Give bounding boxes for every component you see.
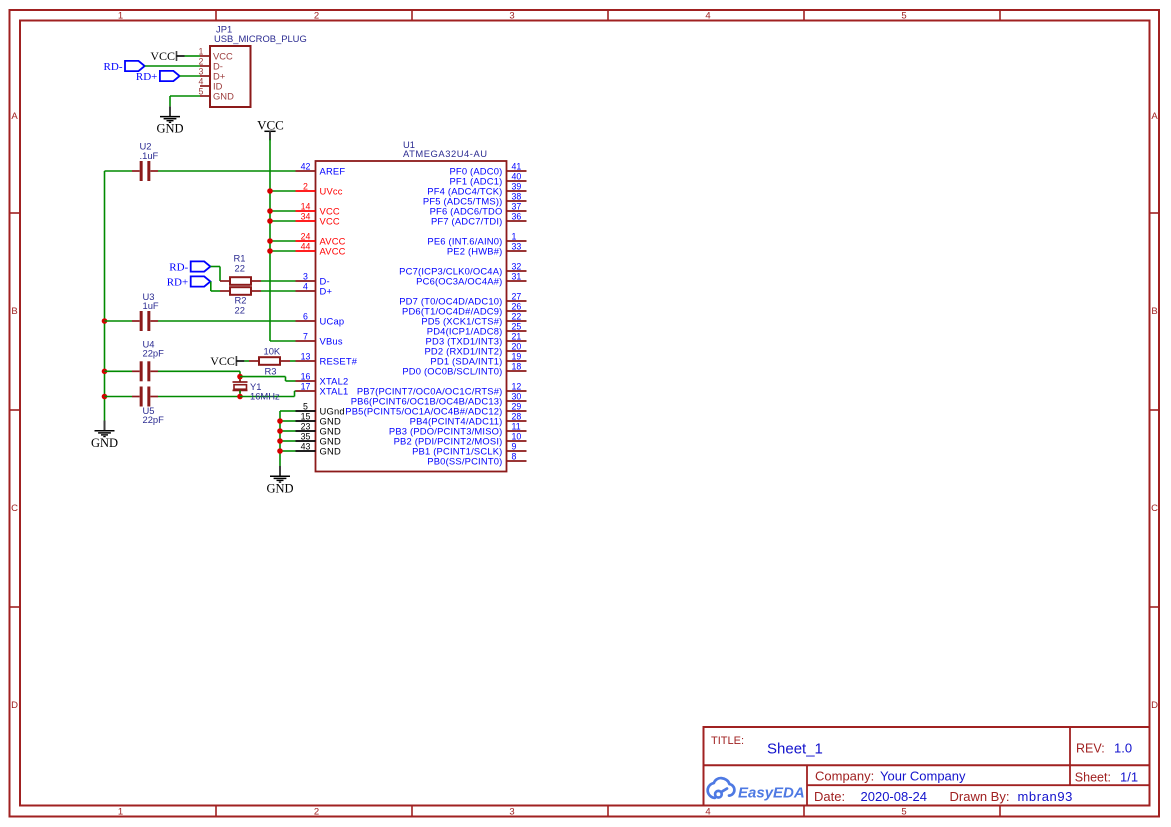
svg-text:22pF: 22pF	[143, 414, 165, 425]
svg-text:TITLE:: TITLE:	[711, 735, 744, 747]
svg-text:D: D	[11, 700, 18, 711]
svg-text:GND: GND	[213, 90, 234, 101]
title block vertical divider REV	[1069, 727, 1071, 785]
title block vertical divider logo	[806, 765, 808, 805]
U1 pin 42 (AREF) stub	[296, 170, 316, 172]
wire RD+ port to JP1 pin 3	[180, 75, 200, 77]
IC U1 body	[316, 161, 507, 472]
U1 pin 29 (PB5(PCINT5/OC1A/OC4B#/ADC12)) stub	[507, 410, 527, 412]
wire RD- corner down to R1	[219, 267, 221, 282]
svg-text:1uF: 1uF	[143, 300, 159, 311]
svg-text:5: 5	[199, 86, 204, 96]
frame column tick x=412	[411, 10, 413, 21]
svg-text:R3: R3	[265, 365, 277, 376]
svg-text:33: 33	[512, 241, 522, 251]
svg-text:RESET#: RESET#	[320, 355, 358, 366]
wire XTAL1 branch to U1 pin 17	[295, 390, 296, 392]
svg-text:9: 9	[512, 441, 517, 451]
crystal Y1 (16MHz)	[233, 380, 248, 394]
svg-text:D+: D+	[320, 285, 333, 296]
U1 pin 25 (PD4(ICP1/ADC8)) stub	[507, 330, 527, 332]
U1 pin 37 (PF6 (ADC6/TDO) stub	[507, 210, 527, 212]
wire XTAL1 net: capacitor U5 to crystal column	[158, 396, 240, 398]
svg-text:11: 11	[512, 421, 521, 431]
ground symbol GND at left rail	[91, 421, 118, 450]
title block outer box	[704, 727, 1150, 806]
wire XTAL2 branch vertical jog	[285, 377, 287, 381]
svg-text:PD0 (OC0B/SCL/INT0): PD0 (OC0B/SCL/INT0)	[402, 365, 502, 376]
svg-text:44: 44	[301, 241, 311, 251]
svg-text:Sheet:: Sheet:	[1075, 770, 1111, 784]
svg-text:Your Company: Your Company	[880, 768, 966, 783]
svg-text:B: B	[1151, 306, 1157, 317]
junction GND rail y=431	[277, 428, 283, 434]
svg-text:mbran93: mbran93	[1018, 789, 1074, 804]
svg-text:6: 6	[303, 311, 308, 321]
svg-text:C: C	[11, 503, 18, 514]
U1 pin 18 (PD0 (OC0B/SCL/INT0)) stub	[507, 370, 527, 372]
ground symbol GND below JP1	[156, 106, 183, 135]
svg-text:RD-: RD-	[104, 61, 123, 73]
svg-text:24: 24	[301, 231, 311, 241]
svg-text:PC6(OC3A/OC4A#): PC6(OC3A/OC4A#)	[416, 275, 502, 286]
U1 pin 28 (PB4(PCINT4/ADC11)) stub	[507, 420, 527, 422]
frame row tick y=410	[10, 409, 21, 411]
U1 pin 40 (PF1 (ADC1)) stub	[507, 180, 527, 182]
wire AREF net: capacitor U2 to U1 pin 42	[158, 170, 296, 172]
U1 pin 24 (AVCC) stub	[296, 240, 316, 242]
svg-text:2: 2	[303, 181, 308, 191]
U1 pin 41 (PF0 (ADC0)) stub	[507, 170, 527, 172]
wire VCC flag to JP1 pin 1	[185, 55, 201, 57]
junction on VCC rail y=251	[267, 248, 273, 254]
svg-text:3: 3	[509, 11, 514, 22]
svg-text:20: 20	[512, 341, 522, 351]
svg-text:VBus: VBus	[320, 335, 343, 346]
svg-text:3: 3	[303, 271, 308, 281]
svg-text:17: 17	[301, 381, 311, 391]
svg-text:Sheet_1: Sheet_1	[767, 741, 823, 758]
svg-text:19: 19	[512, 351, 522, 361]
frame column tick x=1000	[999, 10, 1001, 21]
JP1 pin 5 (GND) stub	[200, 95, 210, 97]
wire UGnd pin 5 to GND rail corner	[280, 410, 296, 412]
svg-text:25: 25	[512, 321, 522, 331]
capacitor U4 (22pF)	[132, 361, 158, 381]
wire XTAL2 branch horizontal	[240, 376, 286, 378]
svg-text:1/1: 1/1	[1120, 769, 1138, 784]
title block horizontal divider 1	[704, 764, 1150, 766]
U1 pin 1 (PE6 (INT.6/AIN0)) stub	[507, 240, 527, 242]
JP1 pin 2 (D-) stub	[200, 65, 210, 67]
U1 pin 44 (AVCC) stub	[296, 250, 316, 252]
svg-text:38: 38	[512, 191, 522, 201]
wire resistor R3 to U1 pin 13 (RESET#)	[290, 360, 296, 362]
wire JP1 ground (vertical)	[169, 96, 171, 106]
wire resistor R1 to U1 pin 3 (D-)	[261, 280, 296, 282]
U1 pin 4 (D+) stub	[296, 290, 316, 292]
svg-text:1: 1	[118, 807, 123, 818]
svg-text:GND: GND	[156, 122, 183, 136]
svg-text:18: 18	[512, 361, 522, 371]
svg-text:10: 10	[512, 431, 522, 441]
svg-text:PB0(SS/PCINT0): PB0(SS/PCINT0)	[427, 455, 502, 466]
svg-text:VCC: VCC	[257, 118, 284, 133]
svg-text:RD-: RD-	[169, 262, 188, 274]
U1 pin 6 (UCap) stub	[296, 320, 316, 322]
svg-text:PF7 (ADC7/TDI): PF7 (ADC7/TDI)	[431, 215, 503, 226]
svg-text:AREF: AREF	[320, 165, 346, 176]
wire GND rail branch y=451	[280, 450, 296, 452]
wire GND rail branch y=421	[280, 420, 296, 422]
svg-text:21: 21	[512, 331, 522, 341]
wire VCC rail branch y=211	[270, 210, 296, 212]
wire VCC rail vertical bus	[269, 139, 271, 341]
U1 pin 8 (PB0(SS/PCINT0)) stub	[507, 460, 527, 462]
U1 pin 13 (RESET#) stub	[296, 360, 316, 362]
svg-text:XTAL1: XTAL1	[320, 385, 349, 396]
wire RD+ corner to R2	[211, 290, 220, 292]
svg-text:29: 29	[512, 401, 522, 411]
U1 pin 5 (UGnd) stub	[296, 410, 316, 412]
capacitor U5 (22pF)	[132, 387, 158, 407]
svg-text:4: 4	[303, 281, 308, 291]
title block horizontal divider 2	[807, 784, 1150, 786]
wire resistor R2 to U1 pin 4 (D+)	[261, 290, 296, 292]
U1 pin 2 (UVcc) stub	[296, 190, 316, 192]
svg-text:Date:: Date:	[814, 789, 845, 804]
svg-text:2: 2	[199, 56, 204, 66]
resistor R3 (10K)	[249, 357, 290, 365]
svg-text:43: 43	[301, 441, 311, 451]
JP1 pin 4 (ID) stub	[200, 85, 210, 87]
JP1 pin 1 (VCC) stub	[200, 55, 210, 57]
junction GND rail at XTAL1 net	[102, 394, 108, 400]
U1 pin 22 (PD5 (XCK1/CTS#)) stub	[507, 320, 527, 322]
U1 pin 32 (PC7(ICP3/CLK0/OC4A)) stub	[507, 270, 527, 272]
svg-text:41: 41	[512, 161, 522, 171]
frame row tick y=607	[10, 606, 21, 608]
wire UCap net: GND rail to capacitor U3	[105, 320, 133, 322]
svg-text:VCC: VCC	[210, 354, 235, 368]
svg-text:30: 30	[512, 391, 522, 401]
wire VCC rail branch y=191	[270, 190, 296, 192]
capacitor U3 (1uF)	[132, 311, 158, 331]
svg-text:GND: GND	[91, 436, 118, 450]
svg-text:A: A	[1151, 111, 1158, 122]
junction GND rail y=451	[277, 448, 283, 454]
U1 pin 38 (PF5 (ADC5/TMS))) stub	[507, 200, 527, 202]
svg-text:16: 16	[301, 371, 311, 381]
svg-text:ATMEGA32U4-AU: ATMEGA32U4-AU	[403, 148, 488, 159]
wire VCC rail branch y=221	[270, 220, 296, 222]
wire UCap net: capacitor U3 to U1 pin 6	[158, 320, 296, 322]
U1 pin 11 (PB3 (PDO/PCINT3/MISO)) stub	[507, 430, 527, 432]
svg-text:13: 13	[301, 351, 311, 361]
wire XTAL1 net: GND rail to capacitor U5	[105, 396, 133, 398]
svg-text:22pF: 22pF	[143, 348, 165, 359]
svg-text:22: 22	[235, 305, 245, 316]
wire GND right rail vertical	[279, 411, 281, 466]
svg-text:2: 2	[314, 11, 319, 22]
ground symbol GND below U1	[266, 466, 293, 495]
junction GND rail y=421	[277, 418, 283, 424]
U1 pin 7 (VBus) stub	[296, 340, 316, 342]
svg-text:1: 1	[512, 231, 517, 241]
U1 pin 27 (PD7 (T0/OC4D/ADC10)) stub	[507, 300, 527, 302]
svg-text:1: 1	[199, 46, 204, 56]
wire RD- port to JP1 pin 2	[145, 65, 200, 67]
wire VCC rail branch y=241	[270, 240, 296, 242]
svg-text:3: 3	[199, 66, 204, 76]
U1 pin 16 (XTAL2) stub	[296, 380, 316, 382]
U1 pin 39 (PF4 (ADC4/TCK)) stub	[507, 190, 527, 192]
wire JP1 pin 5 to ground (horizontal)	[170, 95, 200, 97]
power flag VCC at JP1 pin 1	[150, 49, 184, 63]
U1 pin 33 (PE2 (HWB#)) stub	[507, 250, 527, 252]
U1 pin 31 (PC6(OC3A/OC4A#)) stub	[507, 280, 527, 282]
wire VCC rail to VBus pin 7	[270, 340, 296, 342]
svg-text:4: 4	[705, 11, 710, 22]
wire VCC flag to resistor R3	[244, 360, 249, 362]
svg-text:VCC: VCC	[150, 49, 175, 63]
svg-text:12: 12	[512, 381, 522, 391]
svg-text:37: 37	[512, 201, 522, 211]
svg-text:4: 4	[705, 807, 710, 818]
svg-text:7: 7	[303, 331, 308, 341]
frame row tick y=213	[10, 212, 21, 214]
power flag VCC at resistor R3	[210, 354, 244, 368]
wire VCC rail branch y=251	[270, 250, 296, 252]
junction on VCC rail y=241	[267, 238, 273, 244]
junction on VCC rail y=211	[267, 208, 273, 214]
svg-text:A: A	[11, 111, 18, 122]
svg-text:USB_MICROB_PLUG: USB_MICROB_PLUG	[214, 33, 307, 44]
svg-text:16MHz: 16MHz	[250, 390, 280, 401]
net port RD- at resistor R1	[169, 261, 210, 273]
svg-text:.1uF: .1uF	[140, 150, 159, 161]
resistor R1 (22)	[220, 277, 261, 285]
frame column tick x=608	[607, 10, 609, 21]
wire GND rail branch y=431	[280, 430, 296, 432]
wire crystal column top (XTAL2 side)	[239, 371, 241, 382]
svg-text:1: 1	[118, 11, 123, 22]
junction XTAL1 branch	[237, 394, 243, 400]
svg-text:5: 5	[303, 401, 308, 411]
svg-text:RD+: RD+	[167, 277, 188, 289]
svg-text:RD+: RD+	[136, 71, 157, 83]
svg-text:D: D	[1151, 700, 1158, 711]
svg-text:UCap: UCap	[320, 315, 345, 326]
frame column tick x=216	[215, 10, 217, 21]
JP1 pin 3 (D+) stub	[200, 75, 210, 77]
junction XTAL2 branch	[237, 374, 243, 380]
svg-text:15: 15	[301, 411, 311, 421]
svg-text:B: B	[11, 306, 17, 317]
net port RD+ at JP1 pin 3	[136, 71, 180, 83]
U1 pin 36 (PF7 (ADC7/TDI)) stub	[507, 220, 527, 222]
U1 pin 10 (PB2 (PDI/PCINT2/MOSI)) stub	[507, 440, 527, 442]
svg-text:10K: 10K	[264, 346, 281, 357]
svg-text:1.0: 1.0	[1114, 741, 1132, 756]
svg-text:REV:: REV:	[1076, 742, 1105, 756]
U1 pin 15 (GND) stub	[296, 420, 316, 422]
svg-text:8: 8	[512, 451, 517, 461]
EasyEDA logo cloud icon	[708, 778, 735, 798]
svg-text:2: 2	[314, 807, 319, 818]
svg-text:32: 32	[512, 261, 522, 271]
svg-text:42: 42	[301, 161, 311, 171]
svg-text:2020-08-24: 2020-08-24	[861, 789, 928, 804]
U1 pin 3 (D-) stub	[296, 280, 316, 282]
wire RD- port to corner	[210, 266, 220, 268]
svg-text:3: 3	[509, 807, 514, 818]
power flag VCC above U1	[257, 118, 284, 141]
wire XTAL1 net: crystal column to jog	[240, 396, 295, 398]
U1 pin 19 (PD1 (SDA/INT1)) stub	[507, 360, 527, 362]
svg-text:GND: GND	[320, 445, 341, 456]
wire GND left rail vertical	[104, 171, 106, 421]
wire RD+ port down to D+ row	[210, 282, 212, 292]
net port RD+ at resistor R2	[167, 276, 211, 288]
U1 pin 17 (XTAL1) stub	[296, 390, 316, 392]
U1 pin 9 (PB1 (PCINT1/SCLK)) stub	[507, 450, 527, 452]
svg-text:14: 14	[301, 201, 311, 211]
svg-text:PE2 (HWB#): PE2 (HWB#)	[447, 245, 503, 256]
svg-text:4: 4	[199, 76, 204, 86]
svg-text:28: 28	[512, 411, 522, 421]
U1 pin 43 (GND) stub	[296, 450, 316, 452]
svg-text:40: 40	[512, 171, 522, 181]
svg-text:Drawn By:: Drawn By:	[950, 789, 1010, 804]
junction on VCC rail y=221	[267, 218, 273, 224]
U1 pin 23 (GND) stub	[296, 430, 316, 432]
wire XTAL2 net: capacitor U4 to crystal column	[158, 370, 240, 372]
svg-text:35: 35	[301, 431, 311, 441]
svg-text:AVCC: AVCC	[320, 245, 346, 256]
svg-text:GND: GND	[266, 481, 293, 495]
U1 pin 34 (VCC) stub	[296, 220, 316, 222]
wire XTAL1 branch vertical jog	[294, 391, 296, 397]
U1 pin 21 (PD3 (TXD1/INT3)) stub	[507, 340, 527, 342]
svg-text:22: 22	[512, 311, 522, 321]
junction GND rail at XTAL2 net	[102, 369, 108, 375]
svg-text:26: 26	[512, 301, 522, 311]
wire crystal column bottom (XTAL1 side)	[239, 390, 241, 396]
resistor R2 (22)	[220, 287, 261, 295]
svg-text:VCC: VCC	[320, 215, 340, 226]
U1 pin 26 (PD6(T1/OC4D#/ADC9)) stub	[507, 310, 527, 312]
svg-text:5: 5	[901, 11, 906, 22]
svg-text:39: 39	[512, 181, 522, 191]
wire AREF net: GND rail corner to capacitor U2	[105, 170, 133, 172]
svg-text:EasyEDA: EasyEDA	[738, 785, 805, 802]
svg-text:UVcc: UVcc	[320, 185, 343, 196]
svg-text:31: 31	[512, 271, 522, 281]
junction on VCC rail y=191	[267, 188, 273, 194]
svg-text:23: 23	[301, 421, 311, 431]
net port RD- at JP1 pin 2	[104, 61, 145, 73]
U1 pin 35 (GND) stub	[296, 440, 316, 442]
junction GND rail y=441	[277, 438, 283, 444]
svg-text:Company:: Company:	[815, 768, 874, 783]
U1 pin 14 (VCC) stub	[296, 210, 316, 212]
svg-text:C: C	[1151, 503, 1158, 514]
svg-text:27: 27	[512, 291, 522, 301]
frame column tick x=804	[803, 10, 805, 21]
svg-text:34: 34	[301, 211, 311, 221]
wire XTAL2 net: GND rail to capacitor U4	[105, 370, 133, 372]
svg-text:36: 36	[512, 211, 522, 221]
U1 pin 30 (PB6(PCINT6/OC1B/OC4B/ADC13)) stub	[507, 400, 527, 402]
junction GND rail at UCap net	[102, 318, 108, 324]
capacitor U2 (.1uF)	[132, 161, 158, 181]
wire GND rail branch y=441	[280, 440, 296, 442]
U1 pin 12 (PB7(PCINT7/OC0A/OC1C/RTS#)) stub	[507, 390, 527, 392]
U1 pin 20 (PD2 (RXD1/INT2)) stub	[507, 350, 527, 352]
connector JP1 body	[210, 46, 251, 107]
svg-text:22: 22	[235, 263, 245, 274]
wire XTAL2 branch to U1 pin 16	[286, 380, 296, 382]
svg-text:5: 5	[901, 807, 906, 818]
